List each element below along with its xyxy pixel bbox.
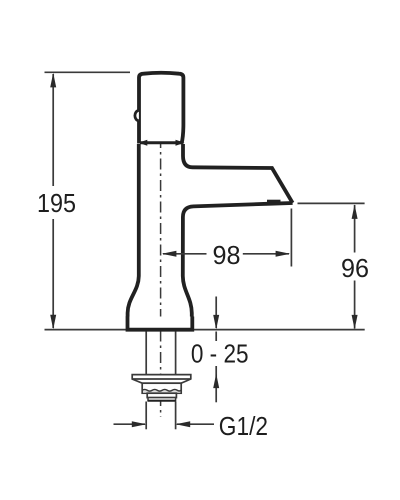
locknut with thread profile bbox=[142, 383, 181, 393]
dimension line 96 bbox=[352, 204, 358, 329]
aerator step under spout tip bbox=[267, 200, 281, 202]
handle knob bbox=[139, 73, 183, 144]
extension line top (195) bbox=[45, 71, 131, 73]
svg-text:195: 195 bbox=[37, 188, 76, 218]
washer bbox=[147, 393, 176, 397]
faucet body outline left bbox=[128, 144, 139, 317]
svg-text:G1/2: G1/2 bbox=[219, 411, 268, 441]
centerline (faucet axis) bbox=[160, 94, 162, 417]
svg-text:0 - 25: 0 - 25 bbox=[191, 339, 249, 369]
base bar bbox=[128, 317, 193, 330]
tailpiece extension lines bbox=[146, 402, 175, 430]
handle side button bump bbox=[135, 111, 139, 121]
dimension 0-25 upper arrow bbox=[213, 297, 219, 342]
svg-text:96: 96 bbox=[341, 253, 369, 283]
dimension 0-25 lower arrow bbox=[213, 366, 219, 402]
extension line spout tip horizontal (96) bbox=[298, 202, 365, 204]
handle base line with arrows bbox=[138, 140, 184, 146]
flange plate bbox=[132, 375, 191, 384]
dimension line 195 bbox=[50, 73, 56, 329]
deck surface line bbox=[45, 329, 365, 331]
extension line spout tip vertical (98) bbox=[290, 209, 292, 267]
spout top edge and tip slant bbox=[183, 144, 293, 203]
dimension line 98 bbox=[162, 251, 290, 257]
svg-text:98: 98 bbox=[213, 240, 241, 270]
faucet body outline right with spout underside bbox=[183, 203, 293, 317]
lower lip bbox=[148, 398, 176, 401]
dimension G1/2 arrows bbox=[114, 421, 215, 427]
shank below base bbox=[146, 332, 175, 375]
